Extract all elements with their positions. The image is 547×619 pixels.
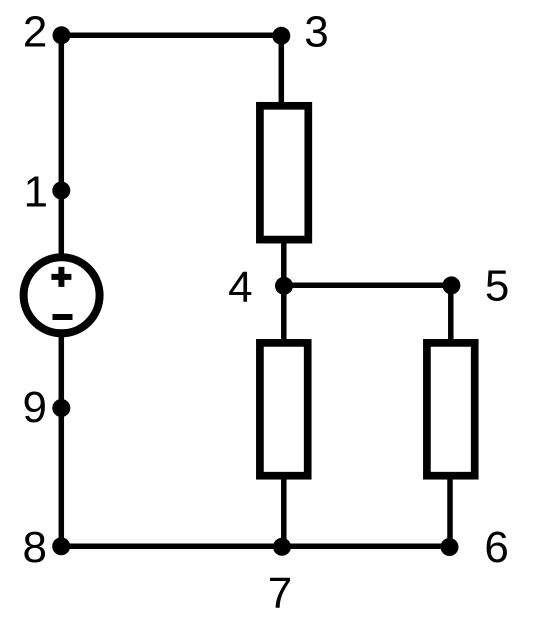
svg-text:9: 9 [23, 383, 47, 432]
svg-text:5: 5 [485, 261, 509, 310]
svg-text:7: 7 [268, 569, 292, 618]
wire node2 to voltage source top (left vertical upper) [59, 35, 65, 256]
node 8 junction dot [52, 537, 70, 555]
node 4 junction dot [275, 277, 293, 295]
svg-text:8: 8 [22, 523, 46, 572]
svg-text:3: 3 [304, 8, 328, 57]
node 7 junction dot [273, 538, 291, 556]
node 6 junction dot [441, 538, 459, 556]
wire node3 to resistor R1 top [279, 35, 285, 104]
voltage source plus sign [51, 267, 71, 287]
resistor R3 [427, 343, 475, 476]
wire node2 to node3 (top horizontal) [61, 33, 281, 39]
wire resistor R1 bottom to node4 [281, 241, 287, 287]
wire resistor R2 bottom to node7 [281, 478, 287, 547]
resistor R1 [260, 106, 308, 240]
wire node4 to resistor R2 top [281, 285, 287, 341]
node 3 junction dot [272, 27, 290, 45]
svg-text:4: 4 [228, 263, 252, 312]
wire voltage source bottom to node8 (left vertical lower) [59, 334, 65, 546]
node 1 junction dot [52, 182, 70, 200]
node 2 junction dot [53, 26, 71, 44]
node 5 junction dot [442, 276, 460, 294]
wire node5 to resistor R3 top [448, 285, 454, 341]
wire node4 to node5 (middle horizontal) [284, 282, 451, 288]
wire node8 to node6 (bottom horizontal) [61, 544, 449, 550]
resistor R2 [260, 343, 308, 476]
svg-text:2: 2 [23, 8, 47, 57]
voltage source V1 circle [24, 257, 100, 333]
svg-text:6: 6 [484, 523, 508, 572]
voltage source minus sign [53, 314, 73, 320]
node 9 junction dot [52, 399, 70, 417]
wire resistor R3 bottom to node6 [447, 478, 453, 547]
svg-text:1: 1 [24, 168, 48, 217]
